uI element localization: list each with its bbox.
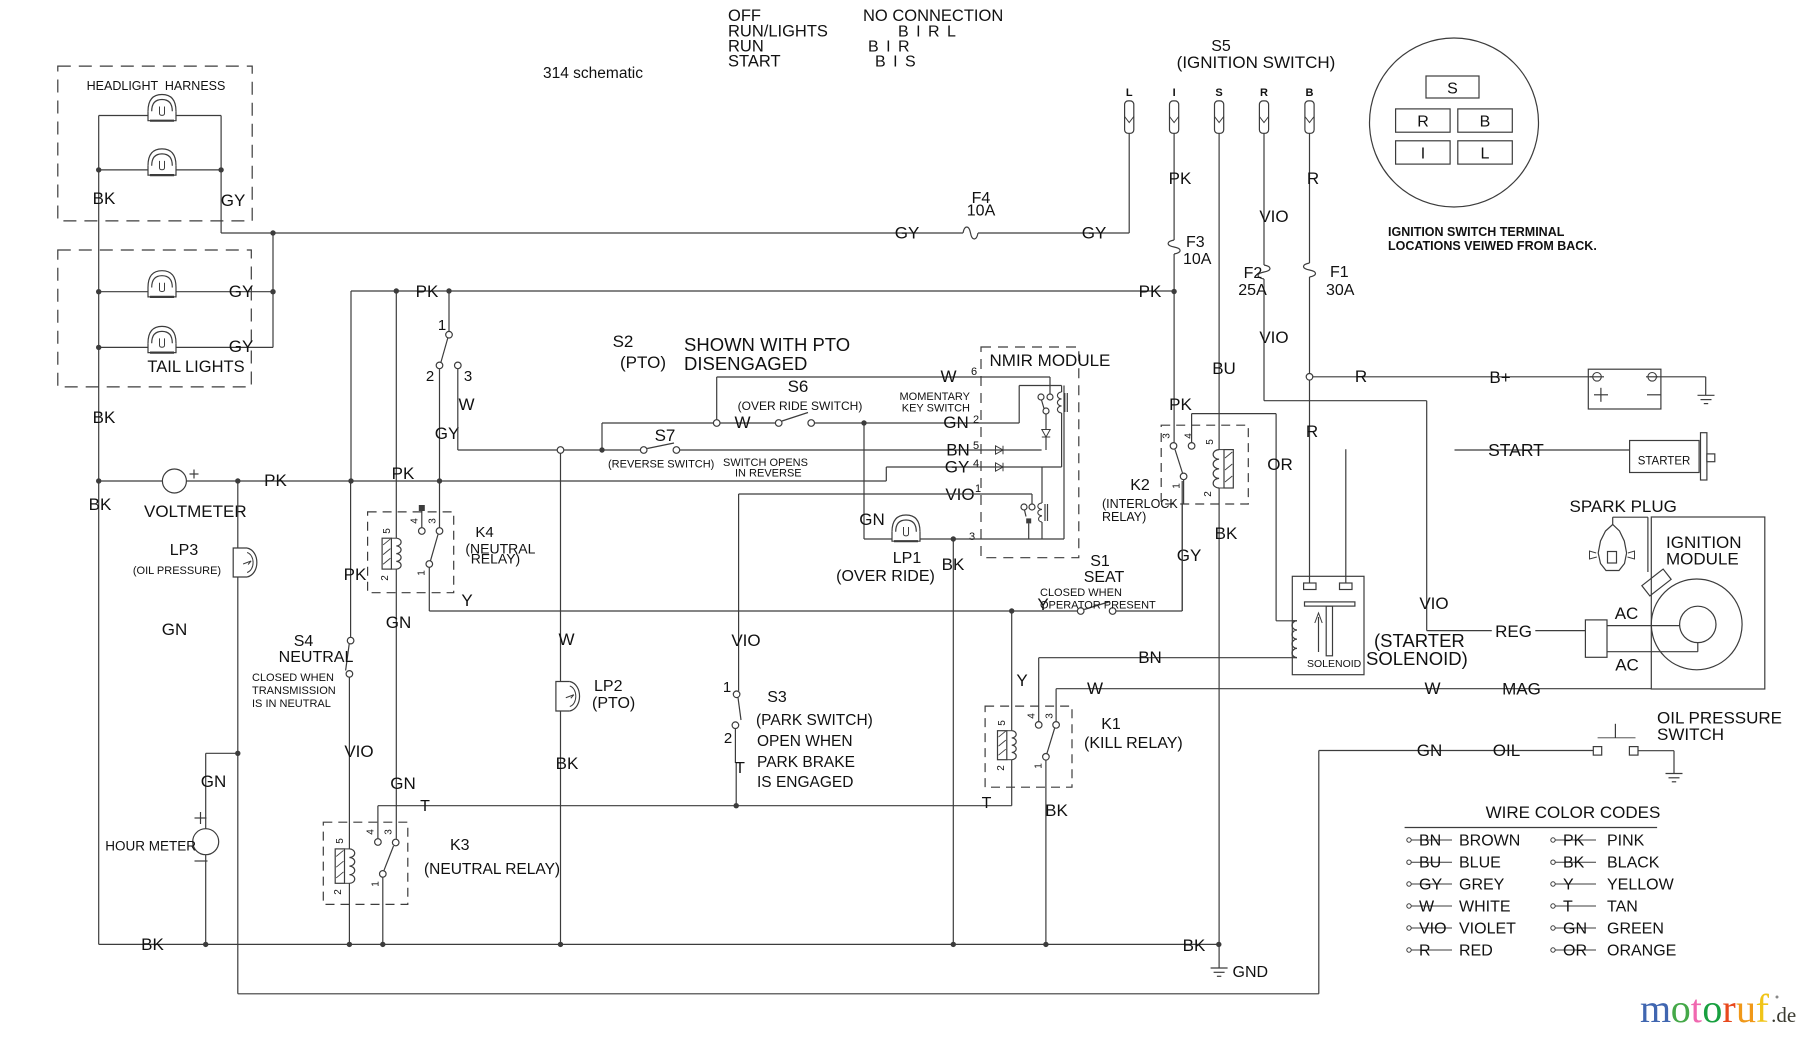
svg-text:K1: K1 [1101,716,1121,733]
pin 5 K2 [1205,439,1216,445]
label VOLTMETER [144,502,247,521]
label 2 S2 [426,368,434,385]
wire GY from S2 pin 2 to K4 pin 3 [437,369,442,528]
pin 4 K3 [366,829,377,835]
lamp LP2 PTO [556,682,580,712]
svg-text:6: 6 [971,366,977,378]
svg-text:VIO: VIO [1259,207,1288,226]
terminal box L [1458,141,1513,164]
svg-text:T: T [1563,899,1573,916]
pin number 4 NMIR [973,458,979,470]
label S7 [655,426,676,445]
terminal box S [1426,76,1479,98]
label REG [1495,622,1532,641]
svg-text:GN: GN [162,620,188,639]
NMIR inner top rail [1019,386,1064,540]
svg-text:PK: PK [416,282,439,301]
label (REVERSE SWITCH) [608,459,714,471]
ignition module box [1651,517,1765,689]
svg-text:B+: B+ [1489,368,1510,387]
ignition switch terminal view circle [1370,38,1539,207]
label F3 [1186,234,1205,251]
lamp headlight 1 [148,95,176,121]
svg-text:K2: K2 [1130,477,1150,494]
wire GY headlight right vertical [218,116,223,234]
svg-text:START: START [728,53,781,71]
wire GN LP3 down to bottom rail [235,481,240,994]
svg-text:PK: PK [344,565,367,584]
label WIRE COLOR CODES [1486,803,1661,822]
wire S7/BN line [458,447,1042,452]
label Y left [461,591,472,610]
label R on B wire upper [1307,169,1319,188]
pin 1 K3 [371,881,382,887]
label (STARTER [1374,630,1465,651]
svg-text:BK: BK [93,189,116,208]
svg-text:PK: PK [1139,282,1162,301]
tap circle LP2 branch [557,447,564,454]
pin number 1 NMIR [975,483,981,495]
label VIO on REG riser [1419,594,1448,613]
label 314 schematic [543,65,643,82]
label LP2 [594,678,623,695]
label K3 [450,837,470,854]
svg-text:30A: 30A [1326,282,1355,299]
wire R pin vertical VIO with F2 [1264,133,1427,400]
svg-text:4: 4 [973,458,979,470]
node battery branch [1306,374,1313,381]
label SWITCH OPENS [723,457,808,469]
pin 2 K3 [333,889,344,895]
svg-text:25A: 25A [1238,282,1267,299]
svg-text:S6: S6 [788,377,809,396]
svg-text:GN: GN [1417,741,1443,760]
svg-text:2: 2 [724,730,732,747]
pin 5 K1 [997,720,1008,726]
label IS ENGAGED [757,774,853,791]
svg-text:BK: BK [1563,855,1585,872]
color code GY GREY [1407,877,1505,894]
lamp tail 2 [148,326,176,352]
svg-text:NEUTRAL: NEUTRAL [279,649,354,666]
label 30A F1 [1326,282,1355,299]
label LP3 [170,542,199,559]
label T on S3 wire [735,760,745,777]
wire BN K1 pin 4 to solenoid coil [1039,658,1293,722]
label 1 S2 [438,317,446,334]
label GN below LP3 [162,620,188,639]
label GY K2 pin1 wire [1177,546,1202,565]
svg-text:R: R [1306,422,1318,441]
svg-text:VIOLET: VIOLET [1459,921,1516,938]
svg-text:S3: S3 [767,689,787,706]
terminal box B [1458,109,1513,132]
svg-text:3: 3 [1162,433,1173,439]
svg-text:GN: GN [859,510,885,529]
pin 5 K3 [335,838,346,844]
label S3 [767,689,787,706]
wire NMIR pin 3 line [920,536,1064,541]
label F4 [972,190,991,207]
label PK near K4 coil [392,464,415,483]
label 25A F2 [1238,282,1267,299]
svg-text:GY: GY [229,282,254,301]
label VIO lower R wire [1259,328,1288,347]
svg-text:5: 5 [335,838,346,844]
label RELAY) K4 [471,551,521,567]
NMIR relay coil upper [1057,386,1067,468]
wire GY bus headlights to ignition L [221,133,1129,233]
label (PARK SWITCH) [756,712,873,729]
wire AC upper [1607,625,1680,627]
label CLOSED WHEN S1 [1040,587,1122,599]
svg-text:1: 1 [438,317,446,334]
table OFF / RUN/LIGHTS / RUN / START [728,7,828,71]
label GND [1233,964,1269,981]
svg-text:.de: .de [1771,1003,1796,1027]
headlight harness dashed box [58,66,252,221]
svg-text:2: 2 [426,368,434,385]
lamp headlight 2 [148,149,176,175]
wire BK K2 coil to GND [1218,488,1220,944]
svg-text:(OIL PRESSURE): (OIL PRESSURE) [133,565,221,577]
label S4 [294,633,314,650]
label S2 [613,332,634,351]
relay K4 dashed box [368,512,454,593]
svg-text:1: 1 [975,483,981,495]
svg-text:PK: PK [1169,395,1192,414]
svg-text:2: 2 [973,414,979,426]
label (OVER RIDE) [836,568,935,585]
label T right end [982,795,992,812]
svg-text:VOLTMETER: VOLTMETER [144,502,247,521]
svg-text:W: W [458,395,474,414]
svg-text:(PARK SWITCH): (PARK SWITCH) [756,712,873,729]
svg-text:AC: AC [1615,656,1639,675]
svg-text:4: 4 [1027,713,1038,719]
svg-text:VIO: VIO [731,631,760,650]
label K2 [1130,477,1150,494]
svg-text:B: B [1480,114,1491,131]
svg-text:(PTO): (PTO) [620,353,666,372]
label K1 [1101,716,1121,733]
switch S2 (PTO) [436,291,461,369]
label T left end [420,798,430,815]
svg-text:SOLENOID: SOLENOID [1307,658,1362,670]
switch S6 over ride switch [775,413,814,427]
svg-text:5: 5 [973,440,979,452]
spark plug symbol [1590,525,1635,571]
svg-text:Y: Y [1016,671,1027,690]
svg-text:BN: BN [1138,648,1162,667]
svg-text:3: 3 [1045,713,1056,719]
svg-text:LP3: LP3 [170,542,199,559]
svg-text:W: W [940,367,956,386]
label 10A F3 [1183,251,1212,268]
connector pin L of S5 [1125,87,1134,133]
label BN pin5 wire [946,441,970,460]
pin 5 K4 [382,528,393,534]
svg-text:W: W [1419,899,1435,916]
ignition coil tower [1642,569,1671,596]
svg-text:CLOSED WHEN: CLOSED WHEN [252,672,334,684]
label VIO upper R wire [1259,207,1288,226]
label BK bus right [1183,936,1206,955]
relay K3 dashed box [323,822,408,904]
svg-text:OIL: OIL [1493,741,1520,760]
svg-text:CLOSED WHEN: CLOSED WHEN [1040,587,1122,599]
label SEAT [1084,569,1125,586]
label PK top bus right [1139,282,1162,301]
svg-text:GREEN: GREEN [1607,921,1664,938]
label HEADLIGHT HARNESS [87,79,226,93]
starter solenoid box [1292,576,1364,674]
svg-text:W: W [558,630,574,649]
svg-text:GN: GN [943,413,969,432]
svg-text:BU: BU [1212,359,1236,378]
pin 3 K2 [1162,433,1173,439]
svg-text:BN: BN [1419,833,1441,850]
svg-text:MODULE: MODULE [1666,550,1739,569]
label 1 S3 [723,679,731,696]
svg-text:TAIL LIGHTS: TAIL LIGHTS [147,358,244,376]
svg-text:3: 3 [969,531,975,543]
label GY right of F4 [1082,224,1107,243]
label (PTO) LP2 [592,695,635,712]
svg-text:2: 2 [333,889,344,895]
svg-text:10A: 10A [967,203,996,220]
wire GY tail vertical to junction [270,230,275,347]
wire GN branch to LP1 [864,423,892,539]
svg-text:BK: BK [1183,936,1206,955]
wire PK voltmeter line [96,478,886,483]
wire Y from K4 pin 1 to K2 pin 1 [429,481,1182,614]
label VIO on S4 wire [344,742,373,761]
svg-text:GN: GN [386,613,412,632]
svg-text:5: 5 [1205,439,1216,445]
svg-text:PINK: PINK [1607,833,1645,850]
svg-text:PK: PK [1563,833,1585,850]
wire spark plug to coil tower [1613,517,1648,572]
wire VIO NMIR pin 1 to S3 [739,494,1032,691]
svg-text:1: 1 [723,679,731,696]
label START [1488,440,1544,460]
label GY headlight [221,191,246,210]
fuse F3 [1168,240,1180,254]
svg-text:IGNITION SWITCH TERMINAL: IGNITION SWITCH TERMINAL [1388,225,1565,239]
tail lights dashed box [58,250,252,387]
svg-text:VIO: VIO [1259,328,1288,347]
svg-text:4: 4 [366,829,377,835]
svg-text:VIO: VIO [344,742,373,761]
svg-text:T: T [420,798,430,815]
svg-text:YELLOW: YELLOW [1607,877,1675,894]
svg-text:BK: BK [1215,524,1238,543]
switch S4 neutral [346,637,354,677]
motoruf.de logo [1640,986,1796,1031]
NMIR diode vertical [1042,430,1050,451]
svg-text:GREY: GREY [1459,877,1505,894]
connector pin S of S5 [1215,87,1224,133]
svg-text:VIO: VIO [1419,921,1447,938]
label R on B wire lower [1306,422,1318,441]
label PARK BRAKE [757,754,855,771]
svg-text:GY: GY [1082,224,1107,243]
wire BK left spine to bottom bus [98,481,100,944]
label IGNITION MODULE [1666,533,1742,569]
label W on S2 pin3 wire [458,395,474,414]
svg-text:LOCATIONS VEIWED FROM BACK.: LOCATIONS VEIWED FROM BACK. [1388,239,1597,253]
label W near K1 [1087,679,1103,698]
wire branch LP2 from S7 line to BK bus [560,453,562,944]
label PK on I wire [1169,169,1192,188]
svg-text:REG: REG [1495,622,1532,641]
label OR [1267,455,1293,474]
label R battery line [1355,367,1367,386]
voltmeter [162,469,198,493]
label (PTO) S2 [620,353,666,372]
label CLOSED WHEN S4 [252,672,334,684]
svg-text:BLUE: BLUE [1459,855,1501,872]
svg-text:3: 3 [428,518,439,524]
label (IGNITION SWITCH) [1177,53,1336,72]
label BK below tail box [93,408,116,427]
label OPEN WHEN [757,733,853,750]
label MAG [1502,680,1541,699]
wire VIO S4 to K3 coil [348,677,350,849]
svg-text:TAN: TAN [1607,899,1638,916]
wire PK K2 pin 4 jog [1192,414,1277,443]
svg-text:4: 4 [1184,433,1195,439]
wire I pin vertical PK to K2 pin 3 [1173,133,1175,442]
label VIO S3 [731,631,760,650]
lamp LP1 over ride [892,515,920,541]
label Y near S1 [1037,595,1048,614]
label HOUR METER [105,839,196,854]
svg-text:B: B [1306,87,1314,99]
wire S6/GN line [602,420,1019,450]
svg-text:T: T [735,760,745,777]
label S6 [788,377,809,396]
svg-text:1: 1 [1034,763,1045,769]
svg-text:10A: 10A [1183,251,1212,268]
svg-text:MOMENTARY: MOMENTARY [900,391,971,403]
label BU on S wire [1212,359,1236,378]
svg-text:(REVERSE SWITCH): (REVERSE SWITCH) [608,459,714,471]
pin 4 K1 [1027,713,1038,719]
label BN solenoid [1138,648,1162,667]
solenoid coil [1292,621,1297,658]
svg-text:PK: PK [264,471,287,490]
svg-text:DISENGAGED: DISENGAGED [684,353,807,374]
color code VIO VIOLET [1407,921,1516,938]
pin 2 K4 [380,575,391,581]
svg-text:GY: GY [435,424,460,443]
relay K2 dashed box [1161,425,1248,504]
label GN oil line [1417,741,1443,760]
switch contacts K1 [1035,722,1059,760]
svg-text:2: 2 [380,575,391,581]
label GY left of F4 [895,224,920,243]
label BK K2 [1215,524,1238,543]
label (OVER RIDE SWITCH) [738,399,863,413]
svg-text:2: 2 [996,765,1007,771]
label GY tail 2 [229,337,254,356]
pin 1 K1 [1034,763,1045,769]
svg-text:BK: BK [89,495,112,514]
wire PK top bus [351,288,1177,294]
label BK at spine junction [89,495,112,514]
fuse F1 [1304,263,1316,277]
connector pin B of S5 [1305,87,1314,133]
svg-text:GY: GY [1177,546,1202,565]
terminal box I [1396,141,1451,164]
label OIL [1493,741,1520,760]
svg-text:W: W [1424,679,1440,698]
color code BU BLUE [1407,855,1501,872]
pin number 3 NMIR [969,531,975,543]
wire PK drop to S4 [348,291,353,637]
pin number 2 NMIR [973,414,979,426]
switch S7 reverse switch [640,443,679,453]
pin 2 K2 [1203,491,1214,497]
wire BK headlight left vertical [96,116,101,482]
label W pin6 wire [940,367,956,386]
ground oil switch [1666,774,1683,782]
svg-text:BK: BK [141,935,164,954]
svg-text:R: R [1417,114,1429,131]
label BK bus left [141,935,164,954]
wire GN K4 coil to K3 pin 3 [395,569,397,839]
label TAIL LIGHTS [147,358,244,376]
svg-text:RELAY): RELAY) [1102,510,1146,524]
svg-text:3: 3 [464,368,472,385]
svg-text:(PTO): (PTO) [592,695,635,712]
svg-text:PK: PK [1169,169,1192,188]
wire W K1 pin 3 to MAG [1056,689,1651,722]
pin 4 K4 [410,518,421,524]
wire K3 pin 1 to BK bus [382,877,384,944]
svg-text:SOLENOID): SOLENOID) [1366,648,1468,669]
label 3 S2 [464,368,472,385]
label B+ [1489,368,1510,387]
label GY on S2 pin2 wire [435,424,460,443]
svg-text:S: S [1215,87,1222,99]
terminal box R [1396,109,1451,132]
svg-text:IN REVERSE: IN REVERSE [735,468,802,480]
wire K3 coil to BK bus [348,883,350,944]
label OIL PRESSURE SWITCH [1657,709,1782,745]
solenoid terminal pads [1304,583,1352,590]
lamp tail 1 [148,271,176,297]
regulator block [1585,620,1607,657]
svg-text:BK: BK [556,754,579,773]
wire GND drop [1218,944,1220,968]
color code Y YELLOW [1551,877,1675,894]
pin 3 K4 [428,518,439,524]
label 10A F4 [967,203,996,220]
solenoid plunger [1305,602,1355,656]
label IS IN NEUTRAL S4 [252,698,331,710]
tap circle W branch on S6 line [713,420,720,427]
table NO CONNECTION column [863,7,1003,71]
wire BK from LP1 junction down [952,539,954,944]
wire oil switch to ground [1638,751,1674,774]
wire GN bottom return [238,993,1319,995]
color code T TAN [1551,899,1638,916]
label GN below K4 [386,613,412,632]
svg-text:F1: F1 [1330,264,1349,281]
